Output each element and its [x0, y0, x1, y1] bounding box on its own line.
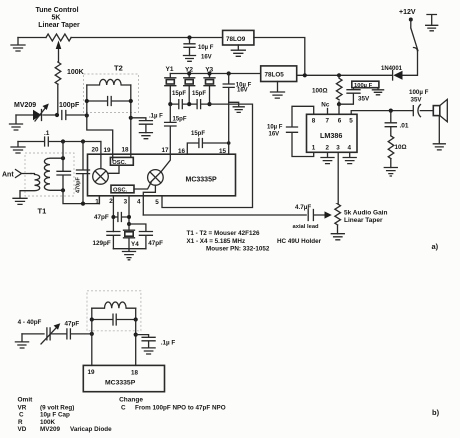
wire 9V rail top: [18, 37, 223, 39]
svg-text:Mouser PN: 332-1052: Mouser PN: 332-1052: [206, 246, 270, 253]
svg-text:15: 15: [219, 148, 227, 155]
svg-text:470pF: 470pF: [76, 176, 82, 193]
svg-text:19: 19: [104, 147, 112, 154]
svg-text:MC3335P: MC3335P: [186, 177, 217, 184]
svg-text:10Ω: 10Ω: [395, 144, 407, 151]
svg-text:1N4001: 1N4001: [381, 66, 403, 72]
node 470pF bottom: [81, 202, 85, 206]
wire T1 riser to wire A: [62, 142, 64, 159]
svg-text:axial lead: axial lead: [293, 224, 320, 230]
ground at .1 cap: [11, 142, 25, 154]
svg-text:.1µ F: .1µ F: [149, 114, 163, 120]
wire pin15 riser: [228, 102, 230, 143]
resistor 10ohm (zobel): [388, 136, 406, 168]
node T1 top: [61, 156, 65, 160]
wire LM386 pin7 stub: [327, 109, 329, 115]
svg-text:16: 16: [178, 148, 186, 155]
crystal Y2: [184, 66, 195, 104]
svg-text:4: 4: [348, 145, 352, 152]
ground at supply filter cap: [372, 88, 383, 95]
node input (b): [90, 332, 94, 336]
transformer T2 dashed box: [84, 74, 139, 113]
svg-text:5K: 5K: [52, 15, 61, 22]
svg-text:Change: Change: [119, 396, 143, 403]
svg-text:47pF: 47pF: [94, 214, 109, 221]
regulator 78L05: [261, 66, 297, 82]
node T2 left top: [85, 99, 89, 103]
capacitor .01 (zobel): [385, 111, 409, 136]
svg-text:a): a): [432, 242, 439, 251]
svg-text:1: 1: [312, 145, 316, 152]
wire LM386 pin6 stub: [338, 104, 340, 114]
svg-text:.1µ F: .1µ F: [161, 339, 176, 346]
svg-text:X1 - X4 = 5.185 MHz: X1 - X4 = 5.185 MHz: [187, 238, 246, 245]
node pin3/47pF right: [127, 222, 131, 226]
node T1 bottom: [61, 188, 65, 192]
ground at variable cap (b): [15, 334, 28, 348]
svg-text:20: 20: [92, 147, 100, 154]
svg-text:18: 18: [131, 370, 139, 377]
svg-text:10µ F: 10µ F: [198, 45, 214, 51]
node T2 left input: [85, 113, 89, 117]
svg-text:5k Audio Gain: 5k Audio Gain: [344, 210, 387, 217]
capacitor T1 tank: [57, 158, 71, 190]
IC U2 LM386 box: [307, 114, 358, 152]
svg-text:MC3335P: MC3335P: [105, 380, 136, 387]
transformer T1 dashed box: [25, 153, 74, 196]
capacitor 10uF 16V (LM386 gain, pins 1-8): [267, 106, 314, 156]
svg-text:T2: T2: [114, 64, 123, 73]
capacitor T2 tank: [87, 85, 131, 157]
capacitor .1uF (b): [136, 335, 176, 348]
capacitor 47pF (right of Y4): [129, 224, 163, 249]
svg-text:15pF: 15pF: [192, 91, 206, 97]
node 15pF/pin15 riser: [227, 141, 231, 145]
wire pin5 to Y3 bottom: [162, 104, 253, 207]
capacitor 4.7uF axial: [293, 204, 332, 230]
svg-text:35V: 35V: [411, 97, 423, 104]
ground at crystal-rail 10uF: [229, 102, 245, 112]
svg-text:C: C: [19, 412, 24, 419]
svg-text:.01: .01: [400, 123, 409, 130]
switch SPST power: [409, 18, 418, 51]
svg-text:T1 - T2 = Mouser 42F126: T1 - T2 = Mouser 42F126: [187, 230, 260, 237]
svg-text:17: 17: [162, 147, 170, 154]
node pin3/47pF: [127, 215, 131, 219]
svg-text:4 - 40pF: 4 - 40pF: [18, 319, 42, 326]
svg-text:78LO5: 78LO5: [265, 72, 285, 79]
svg-text:35V: 35V: [358, 96, 370, 103]
ground at .1uF (b): [142, 348, 155, 354]
svg-text:HC 49U Holder: HC 49U Holder: [277, 238, 322, 245]
svg-text:15pF: 15pF: [172, 91, 186, 97]
ground at audio pot: [331, 234, 344, 240]
ground at zobel: [384, 168, 397, 177]
potentiometer 5k Audio Gain Linear Taper: [335, 152, 388, 233]
transformer T2 winding: [87, 79, 131, 85]
crystal Y4: [124, 230, 140, 249]
svg-text:C: C: [121, 404, 126, 411]
svg-text:129pF: 129pF: [93, 240, 111, 247]
capacitor 100uF 35V (supply filter, boxed label): [339, 81, 379, 104]
capacitor 47pF (pins 2-3): [94, 213, 129, 222]
node 78L09 feed: [303, 73, 307, 77]
wire LM386 pin5 output: [351, 111, 413, 115]
text Change list: [119, 396, 226, 411]
node T2 right top: [129, 99, 133, 103]
capacitor 470pF: [76, 142, 90, 204]
capacitor 15pF (Y1-Y2): [170, 91, 189, 109]
ground at 9V-rail 10uF: [184, 56, 196, 62]
svg-text:From 100pF NPO to 47pF NP: From 100pF NPO to 47pF NPO: [135, 404, 226, 411]
capacitor 100pF: [59, 102, 87, 120]
wire OSC1 to mixer1: [108, 165, 119, 173]
wire pin19 route: [87, 116, 113, 161]
IC U1 MC3335P box: [88, 154, 236, 196]
resistor 100K: [55, 62, 84, 115]
svg-text:16V: 16V: [201, 55, 212, 61]
crystal Y3: [204, 67, 215, 105]
diode 1N4001: [381, 66, 403, 80]
svg-text:MV209: MV209: [40, 426, 60, 433]
svg-text:.1: .1: [44, 130, 50, 137]
svg-text:3: 3: [124, 198, 128, 205]
node 10uF rail: [227, 71, 231, 75]
oscillator box OSC1: [110, 157, 133, 165]
wire pin17 to mixer2: [161, 154, 170, 172]
node output/zobel: [389, 109, 393, 113]
svg-text:19: 19: [88, 369, 96, 376]
svg-text:47pF: 47pF: [65, 321, 80, 328]
wire pin18 riser (b): [135, 320, 137, 366]
svg-text:3: 3: [336, 145, 340, 152]
svg-text:T1: T1: [38, 207, 47, 216]
inductor tank coil (b): [92, 302, 136, 308]
wire 12V rail: [297, 51, 418, 75]
capacitor 15pF (to pin 17): [165, 104, 187, 154]
svg-text:+12V: +12V: [399, 9, 416, 16]
svg-text:100Ω: 100Ω: [312, 88, 328, 95]
svg-text:Linear Taper: Linear Taper: [38, 22, 80, 29]
svg-text:1: 1: [95, 199, 99, 206]
svg-text:10µ F: 10µ F: [267, 125, 283, 131]
svg-text:78LO9: 78LO9: [226, 36, 246, 43]
capacitor 10uF 16V (crystal rail): [223, 74, 251, 103]
svg-text:2: 2: [109, 198, 113, 205]
regulator 78L09: [223, 30, 254, 45]
capacitor 47pF (b): [50, 321, 92, 339]
node Y2 rail: [187, 71, 191, 75]
mixer 2 (inside U1): [148, 170, 164, 186]
ground at Y4 network: [123, 249, 136, 260]
svg-text:15pF: 15pF: [191, 131, 205, 137]
svg-text:Ant: Ant: [2, 172, 14, 179]
resistor 100ohm (LM386 supply): [312, 75, 342, 104]
svg-text:47pF: 47pF: [148, 240, 163, 247]
svg-text:4: 4: [137, 199, 141, 206]
node T2 right to .1uF: [129, 116, 133, 120]
wire OSC2 to mixer2: [134, 183, 151, 189]
node .1uF tee (b): [134, 333, 138, 337]
antenna input Ant: [2, 170, 31, 179]
speaker: [433, 99, 447, 143]
node tank right (b): [134, 317, 138, 321]
svg-text:VD: VD: [18, 426, 27, 433]
wire pin19 riser (b): [91, 320, 93, 366]
svg-text:b): b): [432, 408, 440, 417]
ground at LM386 pin4: [343, 152, 356, 163]
varicap diode MV209: [14, 102, 57, 121]
node wire A to T1: [61, 139, 65, 143]
transformer T1 secondary winding: [44, 158, 63, 190]
IC U3 MC3335P box (b): [83, 365, 164, 391]
svg-text:5: 5: [155, 199, 159, 206]
ground at T2 .1uF: [139, 133, 152, 139]
node pin2/47pF: [111, 215, 115, 219]
svg-text:6: 6: [338, 117, 342, 124]
svg-text:Omit: Omit: [18, 397, 34, 404]
mixer 1 (inside U1): [93, 169, 109, 185]
capacitor .1 (top left): [18, 130, 101, 146]
wire T1 bottom to pin 1: [63, 190, 99, 203]
svg-text:8: 8: [312, 117, 316, 124]
svg-text:Tune Control: Tune Control: [35, 7, 78, 14]
potentiometer Tune Control 5K Linear Taper: [35, 7, 80, 62]
crystal Y1: [165, 66, 176, 104]
ground at 78L09: [231, 45, 245, 56]
svg-text:(9 volt Reg): (9 volt Reg): [40, 404, 74, 411]
wire pin1 stub: [98, 196, 100, 204]
capacitor tank (b): [92, 308, 136, 325]
node tank left (b): [90, 317, 94, 321]
svg-text:Linear Taper: Linear Taper: [344, 217, 383, 224]
svg-text:16V: 16V: [269, 132, 280, 138]
ground at MV209: [10, 115, 23, 130]
capacitor variable 4-40pF (b): [18, 319, 61, 344]
svg-text:Y1: Y1: [166, 66, 174, 73]
tank dashed box (b): [87, 291, 141, 331]
node varicap/100K junction: [55, 113, 59, 117]
ground at LM386 pin2: [321, 152, 334, 163]
ground at battery negative (top right): [426, 15, 438, 31]
svg-text:100K: 100K: [40, 419, 56, 426]
svg-text:4.7µF: 4.7µF: [295, 204, 311, 211]
capacitor 100uF 35V (output coupling): [409, 89, 433, 117]
wire Y4 network bottom rail: [113, 248, 145, 250]
wire pin 20 to mixer1: [100, 142, 102, 169]
capacitor 15pF (Y2-Y3): [189, 91, 209, 109]
svg-text:16V: 16V: [237, 87, 248, 93]
svg-text:15pF: 15pF: [173, 117, 187, 123]
node wire A to 470pF: [81, 139, 85, 143]
svg-text:VR: VR: [18, 404, 27, 411]
svg-text:100K: 100K: [67, 69, 84, 76]
node 100ohm top: [337, 73, 341, 77]
wire mixer2 to pin 4 exit: [143, 185, 155, 215]
capacitor .1uF (T2 bypass): [131, 114, 163, 133]
capacitor 15pF (pin16 to pin15): [187, 131, 228, 154]
svg-text:100µ F: 100µ F: [354, 83, 373, 89]
node Y3 bottom: [207, 102, 211, 106]
svg-text:2: 2: [326, 145, 330, 152]
svg-text:Y4: Y4: [131, 241, 139, 248]
svg-text:7: 7: [326, 117, 330, 124]
text Omit list: [18, 397, 113, 434]
ground at speaker: [433, 144, 445, 150]
svg-text:100µ F: 100µ F: [409, 89, 429, 96]
svg-text:Nc: Nc: [321, 102, 330, 109]
node Y1 bottom: [168, 102, 172, 106]
wire pin2 stub down: [112, 196, 114, 232]
svg-text:OSC.: OSC.: [113, 187, 128, 193]
wire 78L09 input from 12V rail: [254, 38, 305, 76]
capacitor 10uF 16V (9V rail): [184, 35, 214, 60]
node LM386 pin6 supply: [337, 102, 341, 106]
transformer T1 primary winding: [20, 174, 40, 199]
ground at T1 primary: [13, 198, 27, 204]
node Y2 bottom: [187, 102, 191, 106]
svg-text:10µ F Cap: 10µ F Cap: [40, 412, 70, 419]
svg-text:5: 5: [349, 117, 353, 124]
svg-text:100pF: 100pF: [59, 102, 80, 109]
wire audio out pin4 long run: [143, 214, 306, 216]
svg-text:MV209: MV209: [14, 102, 36, 109]
svg-text:LM386: LM386: [320, 131, 342, 140]
svg-text:Varicap Diode: Varicap Diode: [70, 426, 112, 433]
ground at tune pot left: [11, 38, 25, 52]
node Y3 rail: [207, 71, 211, 75]
oscillator box OSC2: [111, 185, 134, 193]
ground at 78L05: [271, 82, 285, 99]
svg-text:18: 18: [122, 147, 130, 154]
capacitor 129pF: [93, 232, 120, 249]
wire crystal rail: [170, 73, 260, 75]
wire pin3 stub down: [128, 196, 130, 230]
svg-text:R: R: [18, 419, 23, 426]
